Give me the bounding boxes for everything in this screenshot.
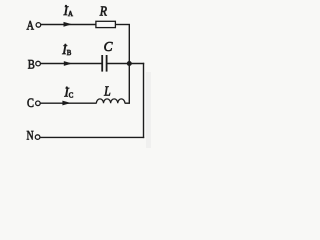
svg-text:L: L — [103, 83, 111, 99]
svg-text:A: A — [68, 11, 73, 18]
svg-text:R: R — [99, 3, 107, 19]
svg-text:N: N — [26, 129, 34, 143]
svg-text:C: C — [69, 93, 74, 100]
svg-text:A: A — [26, 18, 34, 32]
svg-text:C: C — [27, 96, 34, 110]
svg-text:B: B — [28, 56, 35, 71]
svg-text:B: B — [67, 50, 72, 57]
svg-text:C: C — [104, 39, 114, 54]
